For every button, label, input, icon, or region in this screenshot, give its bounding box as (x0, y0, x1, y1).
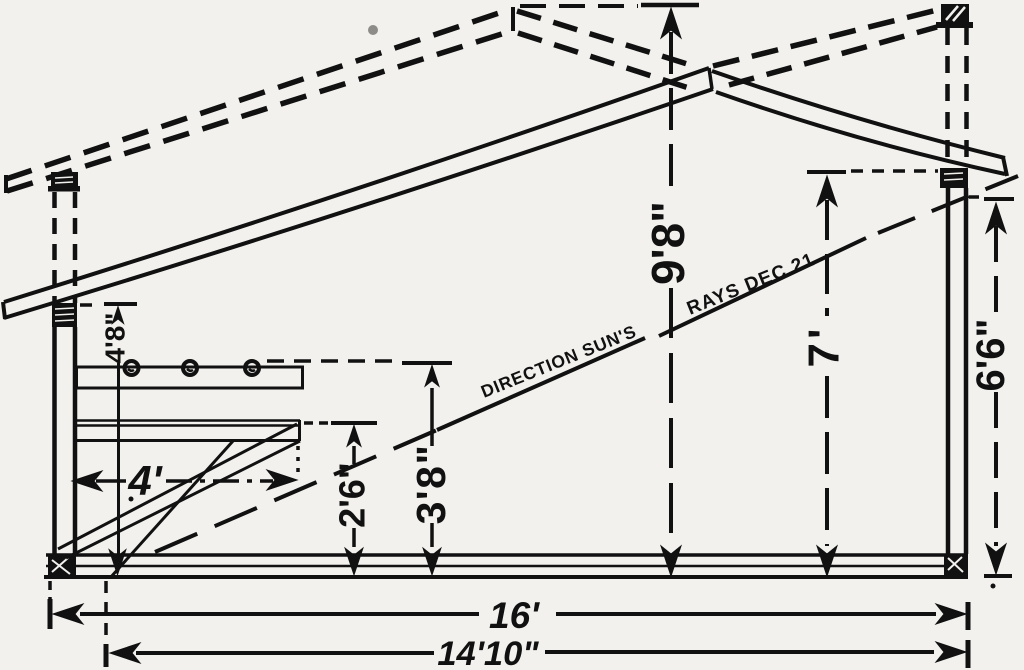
dimension 7' up arrow (817, 176, 837, 206)
main roof right slope top edge (712, 71, 1005, 158)
main roof right slope bottom edge (716, 92, 1005, 174)
right wall top plate block (dashed wall) (936, 4, 973, 28)
floor line top (46, 553, 968, 557)
dimension 4' dash-dot shaft (166, 479, 273, 483)
dimension 3'8" top tick (402, 361, 452, 365)
perch knob 2 (183, 361, 197, 375)
dimension 6'6" down arrow (986, 544, 1006, 574)
ink speck (368, 25, 378, 35)
brace 2 (66, 441, 300, 558)
dimension 4' left arrow (72, 471, 102, 491)
floor line bottom (44, 575, 968, 579)
dimension 14'10" right line (545, 650, 934, 654)
dimension 4'8" down arrow (109, 550, 126, 576)
dashed gable roof right slope upper line (517, 11, 697, 67)
main roof left slope top edge (4, 68, 709, 302)
dimension 14'10" left arrow (110, 643, 140, 663)
left wall studs (55, 327, 76, 556)
svg-text:4'8": 4'8" (100, 312, 131, 363)
dimension 6'6" shaft upper (994, 226, 998, 317)
dimension 7' shaft lower (825, 376, 829, 546)
main roof ridge notch (709, 68, 712, 89)
dimension 3'8" shaft lower (430, 523, 434, 547)
dashed right wall extension stud lines (948, 28, 967, 167)
sun ray line solid under DIRECTION SUN'S (437, 338, 645, 430)
dashed gable apex notch (511, 7, 515, 31)
dimension 4' left shaft (96, 479, 126, 483)
dimension 7' top tick (807, 170, 846, 174)
sun ray line dashed lower (155, 430, 437, 552)
dimension 2'6" up arrow (347, 425, 361, 447)
dashed gable roof left slope upper line (6, 9, 511, 179)
dimension 16' right arrow (936, 604, 966, 624)
svg-text:9'8": 9'8" (642, 201, 694, 285)
sun ray line solid under RAYS DEC 21 (659, 238, 866, 336)
dropping board bottom edge (73, 439, 300, 442)
brace 1 (58, 424, 297, 549)
dimension 4'8" shaft (117, 363, 120, 556)
dimension 9'8" shaft lower (669, 288, 673, 545)
dashed gable roof right slope lower line (518, 33, 692, 89)
svg-text:4': 4' (127, 457, 163, 504)
dropping board top edge (73, 419, 300, 422)
dimension 6'6" shaft lower (994, 392, 998, 546)
dashed shed-roof extension upper line (713, 10, 937, 66)
dimension 4'8" dashes to wall (80, 303, 100, 307)
perch knob 1 (125, 361, 139, 375)
dimension 3'8" shaft upper (430, 388, 434, 446)
dimension 14'10" left dashes (104, 581, 108, 642)
dimension 3'8" up arrow (425, 365, 439, 387)
dot under 4 label (129, 497, 134, 502)
brace 3 (110, 441, 233, 578)
dimension 7' shaft upper (825, 200, 829, 316)
svg-text:3'8": 3'8" (408, 444, 454, 525)
svg-text:14'10": 14'10" (437, 635, 539, 670)
dimension 2'6" shaft upper (352, 446, 356, 464)
dashed left wall extension stud lines (55, 192, 76, 303)
svg-text:6'6": 6'6" (969, 319, 1013, 392)
dimension 6'6" up arrow (986, 203, 1006, 233)
dotted connector at dropping board end (296, 446, 300, 478)
dimension 6'6" stub dash (969, 195, 982, 199)
dropping board right end (298, 420, 301, 441)
main roof left slope bottom edge (4, 89, 713, 318)
dimension 7' down arrow (817, 546, 837, 576)
main roof right end cut (1003, 157, 1007, 176)
dimension 9'8" down arrow (661, 546, 681, 576)
dimension 4'8" up arrow (112, 306, 124, 324)
dimension 2'6" dashes (304, 421, 329, 425)
dimension 9'8" shaft upper (669, 32, 673, 198)
dimension 14'10" left tick (104, 644, 109, 667)
left wall sill block (48, 556, 76, 578)
dimension 16' right line (556, 612, 936, 616)
svg-text:7': 7' (800, 325, 849, 368)
dashed shed-roof extension lower line (729, 27, 937, 85)
sun ray line dashed upper (878, 176, 1018, 233)
right wall studs (948, 188, 966, 554)
floor line middle (46, 565, 968, 568)
dimension 14'10" right arrow (936, 642, 966, 662)
right wall plate block under roof (940, 168, 968, 188)
dashed line from 7' tick to right wall (851, 169, 938, 173)
left wall top plate block (dashed wall) (48, 172, 80, 192)
dimension 9'8" up arrow (661, 8, 681, 38)
dimension 6'6" bottom tick (984, 574, 1012, 578)
perch knob 3 (245, 361, 259, 375)
dashed gable left end cap (4, 175, 8, 193)
main roof left end cut (3, 302, 5, 319)
dimension 6'6" top tick (984, 197, 1014, 201)
dimension 9'8" top tick (641, 3, 699, 8)
dimension 3'8" down arrow (423, 548, 441, 575)
dimension 2'6" down arrow (345, 548, 363, 575)
dot near floor right end (991, 584, 996, 589)
dimension 16' left dashes (48, 581, 52, 599)
dimension 2'6" shaft lower (352, 528, 356, 547)
dashed gable roof left slope lower line (7, 31, 511, 191)
dimension 16' right tick (966, 602, 971, 630)
right wall sill block (944, 554, 968, 576)
dimension 16' left line (80, 612, 479, 616)
dimension 14'10" left line (136, 651, 434, 655)
svg-text:16': 16' (489, 595, 540, 636)
dimension 14'10" right tick (966, 640, 971, 668)
perch board (77, 367, 303, 388)
dimension 9'8" top dashes (520, 4, 638, 8)
dropping board inner line (73, 424, 298, 427)
dimension 16' left tick (48, 599, 53, 629)
dimension 2'6" top tick (331, 421, 377, 425)
left wall plate block under roof (52, 303, 77, 327)
dimension 3'8" dashes from perch (267, 359, 399, 363)
dimension 16' left arrow (53, 604, 83, 624)
dimension 4'8" top tick (104, 302, 137, 306)
dimension 4' right arrow (267, 470, 297, 490)
svg-text:2'6": 2'6" (332, 462, 373, 528)
